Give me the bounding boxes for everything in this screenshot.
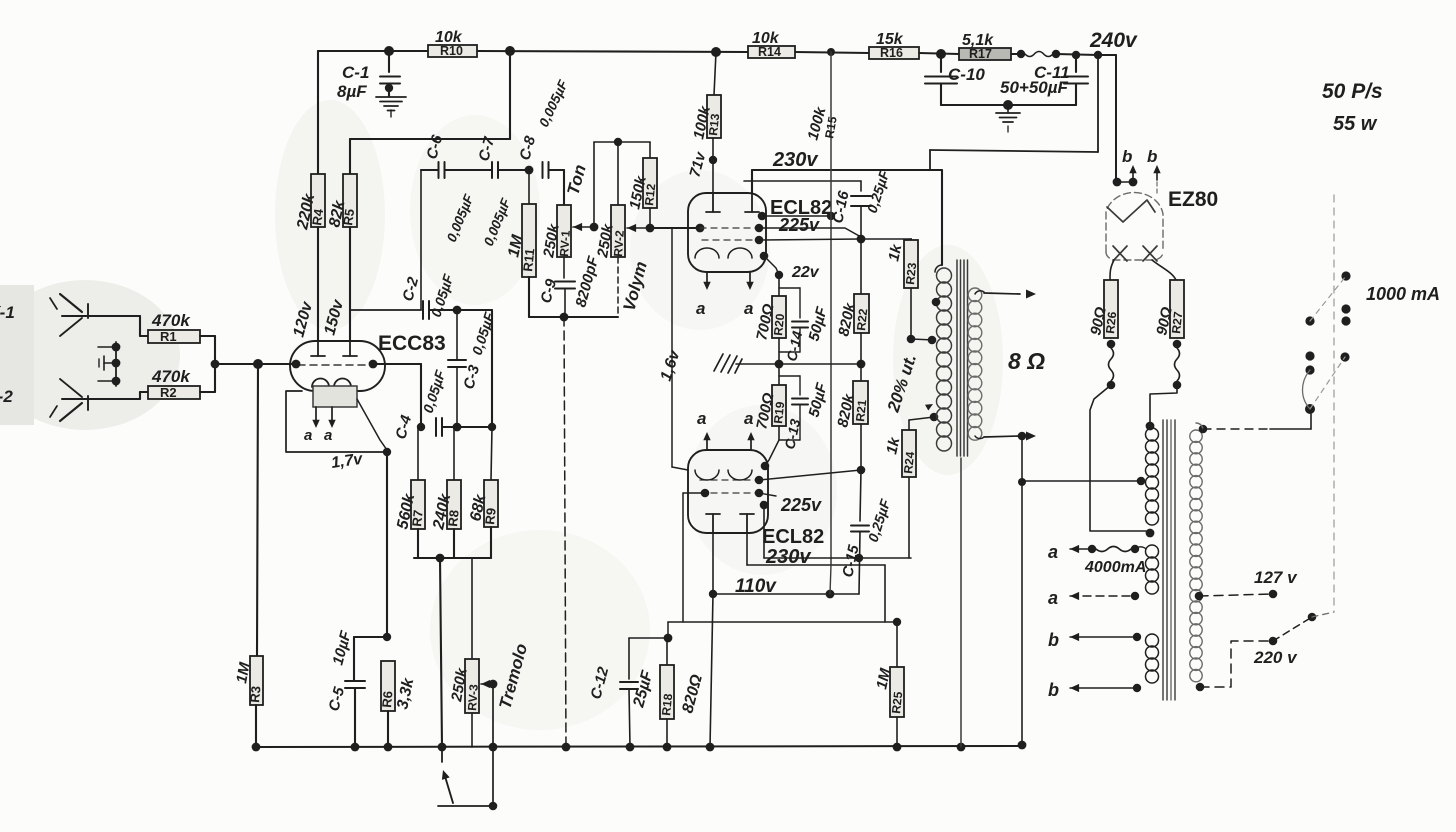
wire: sel diag2 bbox=[1310, 357, 1345, 409]
wire: sel curve bbox=[1303, 370, 1311, 409]
wire: 220v link bbox=[1200, 641, 1273, 687]
resistor R10 bbox=[428, 29, 477, 58]
wire: EZ80 to R27 bbox=[1152, 260, 1176, 280]
label 230v b bbox=[765, 546, 812, 568]
tube ECC83 envelope bbox=[290, 341, 385, 391]
wire: R19 to pin bbox=[765, 426, 779, 466]
svg-text:55 w: 55 w bbox=[1333, 113, 1378, 135]
svg-text:R14: R14 bbox=[758, 45, 781, 59]
svg-text:R21: R21 bbox=[853, 399, 869, 423]
wire: selector rail bbox=[1333, 195, 1335, 612]
node ton-top bbox=[614, 138, 622, 146]
node sel5 bbox=[1305, 351, 1314, 360]
svg-text:R22: R22 bbox=[854, 308, 870, 332]
label ECL82b bbox=[762, 526, 824, 548]
capacitor C7 bbox=[475, 135, 513, 248]
svg-text:R27: R27 bbox=[1169, 311, 1185, 335]
node cathode-loop bbox=[383, 448, 391, 456]
wire: tremolo switch bbox=[438, 684, 493, 806]
node a2 bbox=[1131, 592, 1139, 600]
wire: C10 lead bbox=[940, 54, 942, 72]
tube ECC83 plates bbox=[311, 341, 357, 356]
svg-text:R1: R1 bbox=[160, 329, 177, 344]
wire: y565 line bbox=[747, 564, 885, 566]
wire: HV tap gnd bbox=[1024, 480, 1141, 482]
wire: filter gnd bus bbox=[941, 84, 1076, 105]
resistor R20 bbox=[753, 275, 787, 342]
resistor R8 bbox=[430, 427, 462, 532]
node ECL82a p1 bbox=[758, 212, 767, 221]
node OT-p-top-tap bbox=[932, 298, 941, 307]
node PT-pri-bot bbox=[1196, 683, 1205, 692]
tube ECL82b heater arrows bbox=[703, 432, 754, 450]
node rail-R13 bbox=[711, 47, 721, 57]
node rail-240v bbox=[1094, 51, 1102, 59]
arrow b2 bbox=[1070, 684, 1137, 692]
pot RV-1 bbox=[540, 205, 573, 260]
wire: R13 top bbox=[714, 52, 716, 95]
node trem-junction bbox=[436, 554, 445, 563]
node R26-sq-bot bbox=[1107, 381, 1116, 390]
svg-text:R10: R10 bbox=[440, 44, 463, 58]
svg-text:R13: R13 bbox=[706, 113, 722, 137]
ground mid (cathode) bbox=[714, 354, 779, 373]
node R25-top bbox=[893, 618, 901, 626]
node sel-220 bbox=[1308, 613, 1317, 622]
wire: sel up bbox=[1312, 612, 1334, 617]
svg-text:R20: R20 bbox=[771, 313, 787, 337]
label 1.7v bbox=[330, 451, 364, 472]
wire: gnd line to 861 bbox=[779, 363, 861, 365]
node rail-R10R bbox=[505, 46, 515, 56]
node n861-239 bbox=[857, 235, 866, 244]
wire: x885 link bbox=[884, 565, 886, 622]
svg-text:8 Ω: 8 Ω bbox=[1008, 348, 1045, 374]
resistor R21 bbox=[834, 364, 869, 429]
wire: R6 to bus bbox=[387, 711, 389, 747]
node bus-trem bbox=[438, 743, 447, 752]
node RV2-wiper bbox=[646, 224, 655, 233]
node out-bot bbox=[1018, 432, 1027, 441]
tube ECL82b plates bbox=[706, 514, 754, 533]
svg-text:R18: R18 bbox=[659, 693, 675, 717]
svg-text:a: a bbox=[324, 427, 332, 444]
transformer OT primary bbox=[937, 268, 952, 451]
node 127v bbox=[1269, 590, 1278, 599]
wire: R21 bottom bbox=[860, 424, 862, 470]
wire: R18C12 stub bbox=[667, 622, 669, 638]
wire: to bus from 558 bbox=[440, 558, 442, 747]
node HV-bot bbox=[1146, 529, 1155, 538]
node sel7 bbox=[1340, 352, 1349, 361]
resistor R4 bbox=[294, 174, 326, 232]
wire: R26 squiggle bbox=[1109, 348, 1114, 381]
wire: C6C7C8 line bbox=[421, 170, 564, 205]
node R27-bot bbox=[1173, 340, 1182, 349]
svg-text:R5: R5 bbox=[340, 208, 357, 227]
arrow a1 bbox=[1070, 545, 1092, 553]
node a1 bbox=[1088, 545, 1096, 553]
wire: C1 lead bbox=[388, 51, 390, 72]
node RV3-wiper bbox=[489, 680, 498, 689]
node gnd-861 bbox=[857, 360, 866, 369]
svg-text:R9: R9 bbox=[482, 507, 499, 525]
wire: R26 to HV bottom bbox=[1090, 385, 1146, 531]
resistor R22 bbox=[835, 239, 870, 338]
wire: screen line y181 bbox=[744, 181, 861, 191]
resistor R19 bbox=[753, 364, 787, 431]
node sel3 bbox=[1341, 316, 1350, 325]
wire: OT sec top out bbox=[975, 291, 1020, 294]
node sel8 bbox=[1305, 404, 1315, 414]
tube ECL82a plates bbox=[706, 193, 759, 212]
svg-text:110v: 110v bbox=[735, 576, 777, 597]
node bus-R25 bbox=[893, 743, 902, 752]
svg-text:470k: 470k bbox=[151, 367, 191, 386]
wire: OT sec bottom out bbox=[975, 436, 1020, 439]
node sel1 bbox=[1341, 271, 1350, 280]
wire: 230v plate line bbox=[752, 170, 942, 265]
node HV-tap bbox=[1137, 477, 1146, 486]
wire: C12 top link bbox=[629, 638, 668, 679]
wire: OT top entry bbox=[935, 265, 942, 272]
transformer PT core bbox=[1163, 420, 1175, 700]
wire: RV2 top lead bbox=[617, 142, 619, 205]
node R9-top bbox=[488, 423, 496, 431]
svg-text:225v: 225v bbox=[778, 215, 820, 235]
node n713-594 bbox=[709, 590, 717, 598]
wire: R3 to bus bbox=[255, 705, 257, 747]
wire: C5 top lead bbox=[353, 637, 355, 681]
node ECL82b p4 bbox=[760, 501, 769, 510]
node R24-OT bbox=[930, 413, 939, 422]
svg-text:a: a bbox=[744, 299, 753, 318]
wire: jack gnd bar bbox=[98, 342, 116, 386]
wire: RV3 bottom bbox=[471, 713, 473, 747]
node n861-470 bbox=[857, 466, 866, 475]
wire: cathode b down bbox=[683, 493, 705, 622]
wire: R24 bottom to 558 bbox=[908, 477, 910, 558]
wire: plate b2 down bbox=[746, 533, 748, 565]
node 220v bbox=[1269, 637, 1278, 646]
label b1 bbox=[1048, 630, 1059, 650]
node bus-OTcore bbox=[957, 743, 966, 752]
node trem-sw bbox=[489, 802, 498, 811]
label jack1 tag bbox=[0, 303, 15, 322]
node jackgnd-2 bbox=[112, 359, 121, 368]
node b1 bbox=[1133, 633, 1141, 641]
wire: OT core gnd bbox=[960, 458, 962, 747]
resistor R24 bbox=[883, 430, 917, 477]
wire: wiper up bbox=[593, 142, 595, 227]
svg-text:a: a bbox=[744, 409, 753, 428]
node screen-rail-join bbox=[827, 212, 835, 220]
node R6-top bbox=[383, 633, 391, 641]
node bus-RV3w bbox=[489, 743, 498, 752]
wire: out gnd drop bbox=[1021, 436, 1023, 745]
svg-text:RV-1: RV-1 bbox=[557, 230, 573, 258]
svg-text:b: b bbox=[1048, 630, 1059, 650]
svg-text:R4: R4 bbox=[309, 207, 326, 226]
wire: grid leak drop bbox=[257, 364, 258, 656]
wire: R27 to HV top bbox=[1150, 385, 1177, 424]
wire: R23 to OT bbox=[910, 288, 912, 339]
wire: plate b1 down bbox=[712, 533, 714, 594]
wire: R24 top to OT bbox=[909, 417, 934, 430]
svg-text:EZ80: EZ80 bbox=[1168, 188, 1218, 211]
label ECC83 heater a a bbox=[304, 427, 332, 444]
svg-text:(-2: (-2 bbox=[0, 387, 13, 406]
wire: R20 bottom bbox=[778, 338, 780, 364]
node C2-C3 bbox=[453, 306, 462, 315]
svg-text:R8: R8 bbox=[445, 509, 462, 527]
node jackgnd-1 bbox=[112, 343, 121, 352]
label 225v b bbox=[780, 495, 822, 515]
node R27-sq-bot bbox=[1173, 381, 1182, 390]
label 220v bbox=[1253, 648, 1298, 667]
label Tremolo bbox=[496, 642, 532, 711]
node ECL82b p2 bbox=[755, 476, 764, 485]
node bus-R3 bbox=[252, 743, 261, 752]
wire: 240v down-corner bbox=[1098, 55, 1116, 180]
label 110v bbox=[735, 576, 777, 597]
svg-text:C-11: C-11 bbox=[1034, 63, 1070, 82]
jack J2 bbox=[50, 379, 140, 421]
node jackgnd-3 bbox=[112, 377, 121, 386]
label 150v bbox=[321, 297, 347, 337]
capacitor C9 bbox=[537, 254, 602, 317]
label 127v bbox=[1254, 568, 1298, 587]
capacitor C15 bbox=[839, 470, 893, 594]
label 50+50uF bbox=[1000, 78, 1069, 97]
node b2 bbox=[1133, 684, 1141, 692]
svg-text:(-1: (-1 bbox=[0, 303, 15, 322]
svg-text:240v: 240v bbox=[1089, 29, 1138, 52]
wire: R789 bottoms bbox=[414, 527, 491, 558]
wire: C4 right bbox=[443, 426, 457, 428]
wire: EZ80 to R26 bbox=[1110, 260, 1114, 280]
wire: vol bottom line bbox=[529, 257, 618, 317]
wire: rail squiggle bbox=[1025, 52, 1053, 57]
svg-text:R26: R26 bbox=[1103, 311, 1119, 335]
capacitor C13 bbox=[779, 376, 831, 451]
node volbot bbox=[560, 313, 569, 322]
resistor R2 bbox=[148, 367, 200, 400]
resistor R11 bbox=[505, 170, 537, 277]
node sel4 bbox=[1305, 316, 1314, 325]
svg-text:a: a bbox=[304, 427, 312, 444]
node bus-R6 bbox=[384, 743, 393, 752]
transformer PT a-winding bbox=[1135, 545, 1159, 594]
node 22v bbox=[775, 271, 783, 279]
wire: J1 to R1 bbox=[140, 316, 148, 336]
node bus-C5 bbox=[351, 743, 360, 752]
svg-text:C-10: C-10 bbox=[948, 65, 985, 84]
label 22v bbox=[791, 264, 820, 281]
node bus-713 bbox=[706, 743, 715, 752]
wire: R12 bottom bbox=[649, 208, 651, 228]
wire: C1-gnd lead bbox=[388, 88, 390, 96]
label a-fuse bbox=[1048, 542, 1058, 562]
svg-text:a: a bbox=[1048, 588, 1058, 608]
resistor R13 bbox=[690, 95, 722, 141]
wire: C2 line corner bbox=[457, 310, 492, 427]
capacitor C3 bbox=[448, 310, 498, 427]
ground under C10/C11 bbox=[996, 105, 1020, 132]
svg-text:225v: 225v bbox=[780, 495, 822, 515]
node rail-fuseR bbox=[1052, 50, 1060, 58]
wire: y622 line bbox=[668, 621, 897, 623]
arrow b1 bbox=[1070, 633, 1137, 641]
node ECL82a p3 bbox=[755, 236, 764, 245]
svg-text:R23: R23 bbox=[903, 262, 919, 286]
transformer OT core bbox=[957, 260, 968, 456]
label 230v a bbox=[772, 149, 819, 171]
label 1000mA bbox=[1366, 284, 1440, 304]
svg-text:R16: R16 bbox=[880, 46, 903, 60]
wire: 470 to pin diag bbox=[759, 470, 861, 480]
ground under C1 bbox=[376, 97, 406, 117]
node EZ80 hk1 bbox=[1113, 178, 1122, 187]
label 50 P/s bbox=[1322, 80, 1383, 103]
svg-text:a: a bbox=[696, 299, 705, 318]
pot RV-2 wiper bbox=[627, 224, 650, 232]
node PT-pri-top bbox=[1199, 425, 1208, 434]
svg-text:R12: R12 bbox=[642, 183, 658, 207]
capacitor C5 bbox=[325, 629, 365, 714]
svg-text:RV-2: RV-2 bbox=[611, 230, 627, 258]
node R23-OT bbox=[907, 335, 916, 344]
label 1.6v bbox=[658, 347, 684, 383]
label 225v a bbox=[778, 215, 820, 235]
wire: fuse 4000mA bbox=[1096, 547, 1131, 552]
capacitor C16 bbox=[829, 168, 892, 225]
node 71v bbox=[709, 156, 717, 164]
wire: B+ y150 feed bbox=[930, 55, 1098, 170]
svg-text:R2: R2 bbox=[160, 385, 177, 400]
node PT-pri-127 bbox=[1195, 592, 1204, 601]
wire: y558 line bbox=[764, 557, 911, 559]
svg-text:R19: R19 bbox=[771, 401, 787, 425]
node a1b bbox=[1131, 545, 1139, 553]
svg-text:R17: R17 bbox=[969, 47, 992, 61]
wire: 127v link bbox=[1199, 594, 1273, 596]
wire: hk link bbox=[1116, 181, 1133, 183]
node C4-left bbox=[417, 423, 425, 431]
svg-text:R11: R11 bbox=[520, 248, 537, 273]
resistor R14 bbox=[748, 30, 795, 59]
label 240v bbox=[1089, 29, 1138, 52]
wire: pri top curl bbox=[1196, 423, 1203, 429]
wire: 1.6v line bbox=[672, 228, 688, 470]
wire: R27 squiggle bbox=[1175, 348, 1180, 381]
resistor R9 bbox=[467, 427, 498, 527]
node n859-558 bbox=[855, 554, 863, 562]
tube ECL82a heater arrows bbox=[703, 272, 753, 290]
resistor R18 bbox=[659, 638, 706, 719]
wire: x713 to bus bbox=[710, 594, 713, 747]
wire: C12 to bus bbox=[629, 689, 630, 747]
pot RV-3 bbox=[448, 659, 481, 713]
node rail-C1 bbox=[384, 46, 394, 56]
wire: rail to R4 bbox=[317, 51, 319, 174]
svg-text:ECL82: ECL82 bbox=[762, 526, 824, 548]
capacitor C14 bbox=[779, 288, 831, 363]
node rail-C10 bbox=[936, 49, 946, 59]
wire: sel diag1 bbox=[1310, 276, 1346, 321]
node grid-tap bbox=[253, 359, 263, 369]
label 55w bbox=[1333, 113, 1378, 135]
arrow out bottom bbox=[1026, 432, 1036, 441]
node ECL82b left pin bbox=[701, 489, 710, 498]
transformer PT primary bbox=[1190, 430, 1202, 682]
label jack2 tag bbox=[0, 387, 13, 406]
label EZ80 bbox=[1168, 188, 1218, 211]
tube ECL82a grids bbox=[695, 228, 756, 258]
wire: pin4 down bbox=[763, 505, 765, 558]
wire: R25 to bus bbox=[896, 717, 898, 747]
node ECL82a p2 bbox=[755, 224, 764, 233]
resistor R27 bbox=[1153, 280, 1185, 338]
resistor R3 bbox=[233, 656, 263, 705]
label 71v bbox=[686, 149, 709, 179]
node R18-top bbox=[664, 634, 673, 643]
wire: pin2 line bbox=[759, 228, 861, 237]
wire: C5 to bus bbox=[354, 688, 356, 747]
svg-text:8µF: 8µF bbox=[337, 82, 367, 101]
svg-text:b: b bbox=[1048, 680, 1059, 700]
svg-text:4000mA: 4000mA bbox=[1084, 559, 1146, 576]
label ECL82a bbox=[770, 197, 832, 219]
svg-text:22v: 22v bbox=[791, 264, 820, 281]
transformer OT secondary bbox=[968, 288, 982, 440]
wire: mains in bbox=[1203, 414, 1311, 429]
svg-text:RV-3: RV-3 bbox=[465, 684, 481, 712]
arrow a2 bbox=[1070, 592, 1135, 600]
svg-text:220 v: 220 v bbox=[1253, 648, 1298, 667]
tube EZ80 envelope bbox=[1106, 193, 1163, 260]
svg-text:R3: R3 bbox=[247, 685, 263, 703]
wire: R23 feed bbox=[861, 239, 911, 240]
wire: pin3 line bbox=[759, 239, 861, 240]
wire: R5 to plate node bbox=[349, 227, 351, 341]
label 8ohm bbox=[1008, 348, 1045, 374]
resistor R6 bbox=[379, 661, 418, 711]
svg-text:470k: 470k bbox=[151, 311, 191, 330]
wire: ground bus bbox=[255, 746, 1022, 747]
wire: pin4 to R20 bbox=[764, 256, 779, 275]
wire: cathode node bbox=[354, 636, 387, 638]
node bus-C9 bbox=[562, 743, 571, 752]
wire: volbot to bus bbox=[564, 317, 566, 747]
svg-text:R6: R6 bbox=[379, 690, 395, 708]
node rail-C11 bbox=[1072, 51, 1080, 59]
svg-text:127 v: 127 v bbox=[1254, 568, 1298, 587]
label ECL82a heater a a bbox=[696, 299, 753, 318]
tube ECL82a envelope bbox=[688, 193, 766, 272]
label EZ80 b b bbox=[1122, 147, 1157, 166]
node EZ80 hk2 bbox=[1129, 178, 1138, 187]
tube ECL82b envelope bbox=[688, 450, 768, 533]
node C7-C8-R11 bbox=[525, 166, 534, 175]
capacitor C6 bbox=[423, 133, 476, 244]
wire: B+ rail top bbox=[318, 51, 1098, 55]
node rail-fuseL bbox=[1017, 50, 1025, 58]
wire: x831 tail bbox=[830, 565, 831, 594]
node ECL82a p4 bbox=[760, 252, 769, 261]
label b2 bbox=[1048, 680, 1059, 700]
arrow out top bbox=[1026, 290, 1036, 299]
